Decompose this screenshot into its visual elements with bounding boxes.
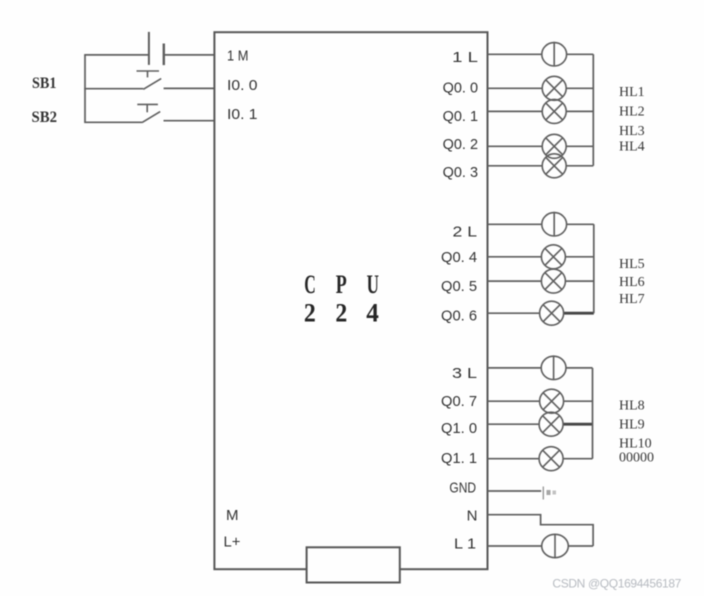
svg-text:HL4: HL4 — [619, 140, 645, 155]
svg-text:Q1. 0: Q1. 0 — [441, 420, 477, 437]
svg-text:2: 2 — [304, 299, 316, 328]
svg-text:HL2: HL2 — [619, 105, 645, 120]
svg-text:Q0. 3: Q0. 3 — [443, 164, 478, 181]
svg-text:3 L: 3 L — [452, 365, 477, 382]
svg-text:4: 4 — [366, 299, 379, 328]
svg-text:Q0. 0: Q0. 0 — [443, 80, 478, 97]
svg-text:HL6: HL6 — [619, 275, 645, 290]
svg-text:Q0. 4: Q0. 4 — [441, 249, 477, 266]
svg-text:Q0. 5: Q0. 5 — [441, 278, 477, 295]
svg-text:00000: 00000 — [619, 451, 654, 466]
svg-text:HL7: HL7 — [619, 292, 645, 307]
svg-text:Q0. 7: Q0. 7 — [441, 393, 477, 410]
svg-text:N: N — [467, 508, 478, 525]
svg-text:HL3: HL3 — [619, 124, 645, 139]
svg-text:L+: L+ — [224, 534, 241, 551]
svg-text:CSDN @QQ1694456187: CSDN @QQ1694456187 — [552, 577, 681, 591]
svg-text:Q0. 2: Q0. 2 — [443, 136, 478, 153]
svg-text:HL5: HL5 — [619, 257, 645, 272]
svg-text:GND: GND — [449, 480, 476, 497]
svg-text:L 1: L 1 — [454, 536, 476, 553]
svg-text:HL10: HL10 — [619, 437, 652, 452]
svg-text:P: P — [336, 270, 347, 299]
svg-text:1 L: 1 L — [452, 49, 478, 66]
svg-text:SB1: SB1 — [32, 75, 57, 92]
svg-text:Q1. 1: Q1. 1 — [441, 450, 477, 467]
svg-text:U: U — [367, 270, 379, 299]
svg-text:2: 2 — [335, 299, 347, 328]
svg-text:M: M — [226, 507, 239, 524]
svg-text:HL1: HL1 — [619, 85, 645, 100]
svg-text:HL9: HL9 — [619, 418, 645, 433]
svg-text:I0. 0: I0. 0 — [227, 77, 258, 94]
svg-text:HL8: HL8 — [619, 398, 645, 413]
svg-text:2 L: 2 L — [453, 224, 478, 241]
svg-text:I0. 1: I0. 1 — [227, 106, 258, 123]
svg-text:C: C — [304, 270, 316, 299]
svg-text:SB2: SB2 — [32, 109, 58, 126]
svg-text:Q0. 1: Q0. 1 — [443, 108, 478, 125]
svg-text:1 M: 1 M — [227, 48, 248, 65]
svg-text:Q0. 6: Q0. 6 — [441, 308, 477, 325]
